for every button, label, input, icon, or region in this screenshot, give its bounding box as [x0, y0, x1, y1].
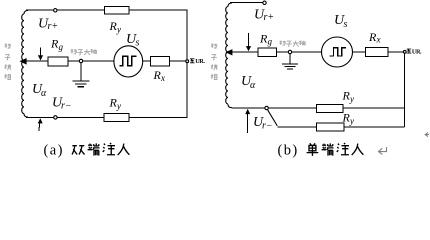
svg-text:α: α [250, 80, 256, 91]
svg-text:r+: r+ [48, 21, 59, 32]
svg-text:y: y [349, 116, 354, 126]
svg-text:g: g [59, 42, 64, 52]
svg-text:r+: r+ [264, 12, 275, 23]
svg-text:x: x [376, 35, 381, 45]
svg-text:s: s [136, 38, 140, 49]
svg-text:g: g [268, 37, 273, 47]
svg-text:(b): (b) [278, 143, 299, 159]
svg-text:(a): (a) [44, 143, 64, 159]
svg-text:s: s [344, 19, 348, 30]
svg-text:y: y [349, 94, 354, 104]
svg-text:r−: r− [61, 101, 72, 112]
svg-text:UR.: UR. [412, 48, 422, 55]
svg-text:x: x [160, 73, 165, 83]
svg-text:α: α [41, 88, 47, 99]
svg-text:y: y [116, 25, 121, 35]
svg-text:UR.: UR. [195, 58, 205, 65]
svg-text:r−: r− [262, 121, 273, 132]
svg-text:y: y [116, 101, 121, 111]
